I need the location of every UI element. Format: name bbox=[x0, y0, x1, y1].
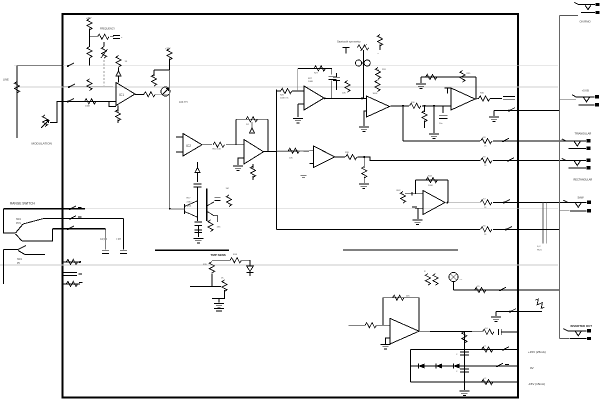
wire vertical node line bbox=[168, 70, 170, 209]
resistor R5 on wire C bbox=[85, 99, 96, 108]
op-amp IC2 buffer bbox=[183, 134, 202, 157]
resistor R52 feedback bbox=[393, 295, 411, 300]
pin +15V bbox=[502, 347, 509, 351]
wire pot P2 wiper dashed bbox=[103, 60, 105, 86]
wire wiper3 to row4 bbox=[25, 254, 45, 256]
wire feedback loop top bbox=[236, 118, 268, 120]
wire R51 to IC10 bbox=[377, 324, 390, 326]
resistor R31 above IC6 bbox=[375, 68, 386, 79]
label Q pair values bbox=[187, 198, 193, 208]
op-amp IC5 integrator bbox=[304, 86, 324, 110]
jack J1 modulation input bbox=[14, 82, 19, 93]
wire triangle to jack bbox=[518, 140, 566, 142]
pin 0V bbox=[496, 363, 509, 367]
tee symbol IC7 bbox=[445, 88, 451, 94]
capacitor C2 bbox=[194, 184, 202, 187]
op-amp IC3 shaper bbox=[244, 140, 264, 165]
svg-text:SW1: SW1 bbox=[17, 259, 23, 261]
ground IC7 input bbox=[429, 134, 439, 138]
resistor R56 -15V bbox=[482, 378, 494, 385]
wire IC10 feedback bbox=[383, 298, 419, 332]
junction triangle tap bbox=[402, 105, 404, 107]
screened cable marks bbox=[537, 202, 546, 251]
diode D4 below buffer bbox=[195, 162, 200, 182]
resistor R2 bbox=[98, 34, 109, 39]
transistor Q3/Q4 pair bar bbox=[206, 189, 208, 222]
wire IC2 output bbox=[202, 144, 212, 146]
wire triangle out row bbox=[403, 140, 480, 142]
wire feedback right leg bbox=[475, 77, 477, 99]
label jack J3 bbox=[582, 89, 589, 93]
wire power left leg bbox=[410, 350, 412, 383]
svg-text:TMP SENS: TMP SENS bbox=[211, 253, 226, 257]
wire IC9 feedback bbox=[415, 180, 448, 203]
label +15V top-left bbox=[86, 18, 92, 20]
wire inverted to edge bbox=[501, 331, 518, 333]
svg-text:FREQUENCY: FREQUENCY bbox=[100, 28, 115, 31]
resistor R13 right of pair bbox=[226, 188, 232, 206]
svg-text:MODULATION: MODULATION bbox=[32, 142, 52, 146]
resistor R28 hanging bbox=[342, 81, 350, 95]
label 10K TH bbox=[179, 101, 188, 104]
pin saw bbox=[503, 200, 510, 204]
pin on row1 bbox=[69, 206, 82, 210]
wire R2 stub bbox=[90, 36, 98, 38]
label +15V scale bbox=[165, 49, 171, 51]
diode D2 in loop bbox=[246, 117, 258, 126]
junction dot on artifact line C bbox=[169, 208, 171, 210]
resistor R9 bbox=[151, 70, 156, 86]
label MODULATION bbox=[32, 142, 52, 146]
wire IC5 feedback left leg bbox=[297, 68, 299, 91]
resistor R41 rect bbox=[481, 157, 493, 168]
pin row on edge y262 bbox=[63, 259, 81, 264]
wire IC1 output bbox=[135, 93, 144, 95]
wire node down to wire A bbox=[89, 58, 91, 66]
scan artifact line D bbox=[0, 264, 558, 266]
label +15V supply bbox=[528, 350, 546, 354]
ground IC9 bbox=[413, 220, 423, 224]
label R14 bbox=[233, 254, 238, 256]
trimmer T1 tee bbox=[343, 48, 350, 54]
wire inverted out row bbox=[419, 330, 482, 333]
wire IC8 plus stub bbox=[310, 163, 314, 165]
wire IC7 out bbox=[475, 98, 479, 101]
op-amp IC1 bbox=[116, 83, 135, 106]
pin triangle bbox=[502, 138, 509, 142]
resistor R12 under Q4 bbox=[208, 220, 221, 231]
ground decoupling bbox=[459, 391, 469, 395]
transistor Q3 left element bbox=[185, 201, 198, 217]
resistor R44 feedback bbox=[426, 176, 438, 187]
transistor Q4 right element bbox=[207, 202, 215, 216]
wire IC6 plus ground bbox=[364, 111, 367, 126]
svg-text:Sawtooth symmetry: Sawtooth symmetry bbox=[337, 40, 361, 44]
wire P3 to D1 bbox=[118, 68, 120, 72]
diode D3 arrow bbox=[249, 122, 254, 133]
svg-text:IC2: IC2 bbox=[186, 144, 191, 148]
wire saw jack feed bbox=[560, 201, 568, 203]
capacitor C5 under row3 bbox=[102, 229, 109, 254]
wire bus to jack3 bbox=[560, 99, 576, 101]
wire core bottom rail bbox=[276, 228, 480, 230]
wire R37 to edge bbox=[493, 140, 518, 142]
svg-text:24K: 24K bbox=[406, 296, 410, 298]
label TMP SENS bbox=[211, 253, 226, 257]
svg-text:ON RMO: ON RMO bbox=[580, 20, 591, 24]
wire IC5 out to IC6 bbox=[324, 97, 367, 99]
junction symmetry line bbox=[361, 97, 363, 99]
switch SW1 wiper bbox=[16, 224, 24, 241]
wire C3 to ground bbox=[195, 226, 202, 238]
ground feedback bbox=[416, 84, 426, 88]
wire R26 to IC5 bbox=[292, 90, 304, 92]
wire saw outside bbox=[518, 201, 560, 203]
wire IC3 plus to ground bbox=[238, 158, 244, 165]
wire C from edge to op-amp IC1 bbox=[63, 100, 116, 102]
wire saw to edge bbox=[493, 201, 518, 203]
pin on wire A at enclosure edge bbox=[67, 63, 74, 67]
resistor R29 bbox=[377, 35, 382, 56]
resistor R10 interstage bbox=[213, 142, 225, 151]
capacitor C3 under pair bbox=[195, 222, 203, 225]
svg-text:RECTANGULAR: RECTANGULAR bbox=[574, 179, 593, 182]
diode D1 above IC1 bbox=[116, 71, 121, 83]
wire R14 to D5 bbox=[242, 260, 250, 266]
wire tmp row bbox=[212, 259, 230, 261]
resistor R4 on wire B bbox=[87, 79, 92, 90]
diode D6 bbox=[418, 363, 424, 368]
junction w2 bbox=[433, 105, 435, 107]
wire R36 to C10 bbox=[490, 98, 502, 100]
jack J4 triangular bbox=[562, 139, 591, 150]
potentiometer P4 symmetry bbox=[357, 44, 369, 51]
label C values bbox=[100, 239, 122, 241]
junction saw out bbox=[447, 202, 449, 204]
wire buffer minus stub bbox=[176, 136, 183, 138]
wire ground stub tmp bbox=[218, 299, 220, 303]
wire B from edge bbox=[63, 86, 113, 88]
wire tmp sens top bbox=[155, 249, 229, 251]
wire IC5 plus leg bbox=[298, 104, 304, 117]
ground IC5 bbox=[293, 119, 303, 123]
resistor R40 to ground bbox=[362, 157, 367, 183]
label FREQUENCY bbox=[100, 28, 115, 31]
svg-text:IC1: IC1 bbox=[119, 93, 124, 97]
pin square return bbox=[508, 108, 515, 112]
ground IC10 bbox=[381, 345, 391, 349]
label SAW bbox=[578, 196, 584, 200]
svg-text:INVERTED OUT: INVERTED OUT bbox=[571, 324, 593, 328]
svg-text:1M: 1M bbox=[226, 188, 229, 190]
svg-text:S,C: S,C bbox=[537, 246, 541, 248]
wire IC5 feedback top bbox=[298, 67, 332, 69]
svg-text:0V: 0V bbox=[530, 366, 534, 370]
label R42 bbox=[397, 190, 402, 192]
scan artifact line C bbox=[3, 208, 558, 210]
resistor R8 scale top bbox=[167, 49, 172, 61]
wire wiper to row2 bbox=[23, 218, 44, 224]
pin on wire B bbox=[68, 84, 75, 88]
resistor R16 bbox=[221, 278, 227, 292]
svg-text:10K: 10K bbox=[289, 158, 293, 160]
wire dashed bias bbox=[378, 69, 380, 81]
ground square return bbox=[489, 117, 499, 121]
jack J2 main out bbox=[574, 2, 599, 14]
ground IC6 bbox=[359, 127, 369, 131]
wire base from node line bbox=[171, 208, 185, 210]
wire IC8 out bbox=[335, 156, 345, 158]
svg-text:10K TH: 10K TH bbox=[179, 101, 188, 104]
wire square gnd return bbox=[494, 109, 518, 111]
junction w1 bbox=[424, 105, 426, 107]
pin inv gnd bbox=[509, 309, 516, 313]
resistor R26 bbox=[280, 88, 292, 99]
resistor R36 output bbox=[479, 93, 491, 102]
label INVERTED OUT bbox=[571, 324, 593, 328]
wire ground leg IC7 input bbox=[433, 106, 435, 133]
ground inv bbox=[491, 317, 501, 321]
wire IC9 minus stub bbox=[405, 192, 423, 195]
wire R1 down to node bbox=[89, 29, 91, 48]
svg-text:100K: 100K bbox=[428, 185, 433, 187]
wire bus to jack7 bbox=[560, 338, 570, 340]
svg-text:100K: 100K bbox=[85, 106, 91, 108]
pin sync bbox=[499, 287, 506, 291]
wire +15V rail bbox=[411, 349, 518, 351]
capacitor C10 square out bbox=[503, 97, 515, 100]
wire inv gnd leg bbox=[495, 311, 497, 316]
resistor R37 triangle bbox=[481, 137, 493, 148]
scan artifact line A bbox=[14, 65, 558, 67]
wire R8 down bbox=[169, 59, 171, 71]
jack J3 sync bbox=[572, 95, 599, 107]
resistor R27 feedback bbox=[314, 66, 326, 75]
resistor R33 hanging bbox=[422, 106, 427, 128]
wire IC1 plus stub bbox=[109, 101, 116, 106]
svg-text:-15V (15mA): -15V (15mA) bbox=[528, 382, 545, 386]
capacitor C8 bbox=[333, 73, 340, 90]
label RECTANGULAR bbox=[574, 179, 593, 182]
svg-text:100K: 100K bbox=[308, 81, 314, 83]
wire R16 to ground leg bbox=[212, 290, 225, 299]
wire sync to bus bbox=[518, 289, 560, 291]
wire R15 down bbox=[211, 274, 213, 287]
wire bus to jack1 bbox=[560, 14, 578, 16]
wire IC8 minus stub bbox=[310, 150, 314, 152]
wire R10 to shaper bbox=[226, 144, 244, 146]
wire saw gray bbox=[448, 201, 480, 203]
jack J7 inverted out bbox=[563, 329, 591, 341]
op-amp IC10 inverter bbox=[390, 318, 419, 344]
svg-text:10K: 10K bbox=[342, 93, 346, 95]
resistor R35 feedback bbox=[460, 71, 471, 82]
svg-text:RANGE SWITCH: RANGE SWITCH bbox=[10, 202, 35, 206]
resistor R30 bbox=[373, 80, 381, 95]
resistor R43 stub bbox=[400, 192, 405, 203]
wire rect to edge bbox=[493, 160, 518, 162]
resistor R1 bbox=[87, 19, 92, 31]
potentiometer P2 fine tune bbox=[101, 47, 108, 59]
wire pot P2 top bbox=[103, 42, 105, 47]
wire IC3 minus stub bbox=[239, 144, 244, 146]
capacitor C1 bbox=[113, 35, 123, 39]
op-amp IC9 bbox=[423, 191, 445, 215]
op-amp IC7 bbox=[451, 88, 475, 110]
ground mark IC8 bbox=[301, 175, 307, 178]
wire sync row bbox=[454, 289, 519, 291]
wire pot P1 to enclosure bbox=[50, 101, 63, 122]
wire R32 to IC7 bbox=[422, 105, 451, 107]
svg-text:100K: 100K bbox=[373, 93, 378, 95]
wire square return to bus bbox=[518, 109, 560, 111]
wire IC9 gnd leg bbox=[417, 208, 419, 219]
wire -15V rail bbox=[411, 381, 518, 383]
wire square gnd leg bbox=[493, 110, 495, 116]
transistor pair Q5 symbol bbox=[356, 60, 371, 66]
svg-text:Q3,4: Q3,4 bbox=[187, 206, 193, 208]
wire rect row bbox=[358, 157, 481, 161]
capacitor C11 inverted bbox=[499, 329, 502, 335]
ground tmp cluster bbox=[214, 304, 224, 312]
capacitor C7 feedback bbox=[329, 68, 337, 98]
wire modulation jack vertical bbox=[16, 66, 18, 138]
potentiometer P1 modulation depth bbox=[41, 115, 49, 128]
capacitor C13 bbox=[456, 369, 469, 373]
pin row on edge y274 bbox=[63, 273, 82, 276]
label SW1 bbox=[16, 219, 22, 225]
pin on row2 bbox=[69, 216, 82, 220]
ground below IC3 bbox=[233, 166, 243, 170]
pin on wire C bbox=[67, 99, 74, 103]
op-amp IC6 comparator bbox=[367, 96, 390, 117]
label sawtooth symmetry bbox=[337, 40, 361, 44]
pin on row3 bbox=[67, 226, 74, 230]
wire buffer plus stub bbox=[176, 151, 183, 153]
wire wiper2 link bbox=[22, 229, 53, 241]
resistor R46 on rail bbox=[481, 225, 493, 236]
resistor pair R47 R48 bbox=[424, 271, 438, 285]
wire feedback gnd leg bbox=[420, 77, 422, 83]
resistor R45 saw bbox=[481, 198, 493, 209]
wire switch pole vertical bbox=[3, 209, 15, 233]
wire decoupling vertical bbox=[463, 332, 465, 390]
svg-text:SAW: SAW bbox=[578, 196, 584, 200]
trimmer RV1 scale bbox=[161, 87, 170, 96]
capacitor C12 bbox=[456, 352, 469, 356]
label TRIANGULAR bbox=[575, 132, 592, 136]
junction IC5 out bbox=[324, 97, 326, 99]
svg-text:LINE: LINE bbox=[3, 78, 9, 82]
resistor R7 on IC1 output bbox=[144, 92, 155, 97]
svg-text:TRIANGULAR: TRIANGULAR bbox=[575, 132, 592, 136]
svg-text:+15V (25mA): +15V (25mA) bbox=[528, 350, 546, 354]
resistor R38 input bbox=[276, 148, 299, 159]
svg-text:C4,5 R: C4,5 R bbox=[100, 239, 107, 241]
resistor R54 decoupling bbox=[462, 332, 467, 344]
wire Q4 emitter bbox=[214, 216, 218, 223]
svg-text:SW1: SW1 bbox=[16, 219, 22, 221]
wire range row1 bbox=[3, 208, 85, 210]
wire feedback loop right leg bbox=[267, 119, 269, 151]
junction decoupling top bbox=[463, 331, 465, 333]
wire mid row right bbox=[343, 249, 458, 251]
label 0V supply bbox=[530, 366, 534, 370]
scan artifact line B bbox=[14, 86, 558, 88]
resistor R11 below IC3 bbox=[250, 164, 255, 180]
pin row on edge y284 bbox=[63, 281, 83, 286]
wire R2 to C1 bbox=[110, 36, 114, 38]
wire symmetry vertical bbox=[362, 50, 364, 98]
wire IC9 plus stub bbox=[412, 207, 423, 208]
jack J5 rectangular bbox=[562, 158, 591, 169]
ground below Q pair bbox=[193, 239, 203, 243]
transistor Q6 bbox=[449, 272, 463, 281]
wire lower pole stub bbox=[3, 249, 18, 251]
wire 0V rail bbox=[411, 365, 518, 367]
svg-text:100K 1%: 100K 1% bbox=[280, 98, 289, 100]
outer enclosure border bbox=[63, 14, 519, 398]
wire R7 to bus node bbox=[156, 93, 170, 95]
pin rail bbox=[505, 227, 512, 231]
resistor R32 series bbox=[410, 102, 422, 109]
label RANGE SWITCH bbox=[10, 202, 35, 206]
svg-text:+5 KB: +5 KB bbox=[582, 89, 589, 93]
label R27 value bbox=[308, 78, 314, 83]
wire IC10 input row bbox=[349, 324, 365, 326]
wire range row2 bbox=[44, 217, 123, 219]
wire modulation input to enclosure bbox=[17, 65, 63, 67]
jack J6 saw bbox=[563, 200, 591, 212]
capacitor C9 bbox=[439, 106, 448, 125]
junction rect bbox=[363, 156, 365, 158]
pin rect bbox=[507, 158, 514, 162]
wire core vertical rail bbox=[275, 90, 277, 230]
wire tmp bottom row bbox=[190, 286, 221, 288]
label -15V supply bbox=[528, 382, 545, 386]
svg-text:R10 10K: R10 10K bbox=[213, 149, 222, 151]
resistor R15 tmp bbox=[203, 262, 214, 274]
label jack J2 bbox=[580, 20, 591, 24]
capacitor C6 under row2 bbox=[120, 218, 127, 253]
wire lower pole bbox=[2, 250, 4, 285]
label LINE of modulation input jack bbox=[3, 78, 9, 82]
resistor R51 input bbox=[365, 323, 377, 328]
resistor R53 inverted bbox=[483, 328, 495, 335]
diode D8 bbox=[453, 363, 459, 368]
wire rail to bus bbox=[493, 228, 560, 230]
resistor R55 +15V bbox=[482, 346, 494, 353]
diode D7 bbox=[436, 363, 442, 368]
wire C2 down to pair bbox=[197, 188, 199, 222]
svg-text:Pb,S: Pb,S bbox=[537, 250, 542, 252]
bus line right column bbox=[559, 15, 561, 338]
wire bus to saw pin2 bbox=[560, 210, 570, 212]
wire triangle tap vertical bbox=[402, 106, 404, 141]
label SW1b bbox=[17, 259, 23, 265]
op-amp IC8 bbox=[313, 146, 335, 168]
wire R38 stub bbox=[298, 150, 310, 152]
wire inv gnd row bbox=[496, 310, 542, 312]
resistor R49 sync bbox=[475, 286, 487, 293]
resistor R3 bbox=[87, 47, 92, 59]
potentiometer P3 above IC1 bbox=[116, 56, 128, 68]
wire IC10 plus leg bbox=[386, 338, 391, 344]
resistor R6 below IC1 bbox=[115, 105, 120, 123]
wire range row3 bbox=[53, 228, 106, 230]
wire scale corner bbox=[154, 69, 169, 71]
wire IC6 out bbox=[390, 105, 409, 108]
